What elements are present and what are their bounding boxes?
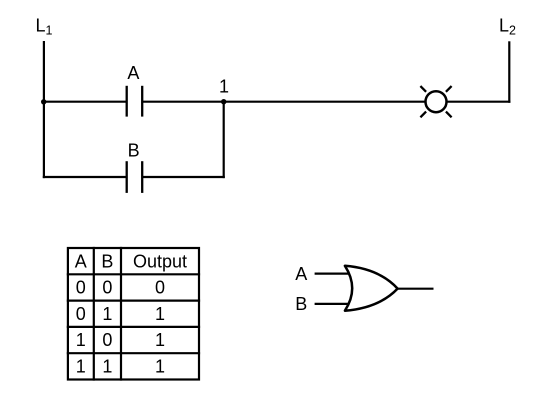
svg-text:A: A bbox=[127, 63, 139, 83]
svg-text:0: 0 bbox=[102, 278, 112, 298]
svg-text:0: 0 bbox=[76, 304, 86, 324]
label L1 bbox=[36, 16, 53, 38]
contact B bbox=[127, 161, 143, 193]
wire gate output bbox=[398, 288, 434, 290]
truth table row 0 0 0 bbox=[76, 278, 165, 298]
OR gate U1 bbox=[345, 266, 398, 311]
truth table row 1 1 1 bbox=[76, 357, 165, 377]
label A (gate input) bbox=[295, 264, 307, 284]
rail L1 bbox=[43, 41, 45, 178]
svg-text:A: A bbox=[295, 264, 307, 284]
truth table row 1 0 1 bbox=[76, 330, 165, 350]
wire lamp to rail L2 bbox=[446, 101, 510, 103]
svg-text:0: 0 bbox=[102, 330, 112, 350]
svg-text:B: B bbox=[295, 294, 307, 314]
svg-text:1: 1 bbox=[102, 357, 112, 377]
truth table header row bbox=[75, 252, 187, 272]
label L2 bbox=[499, 16, 516, 38]
label node 1 bbox=[219, 77, 229, 97]
wire node 1 down to branch B bbox=[223, 102, 225, 178]
label B (contact) bbox=[128, 141, 140, 161]
svg-text:A: A bbox=[75, 252, 87, 272]
junction dot left bbox=[41, 99, 46, 104]
svg-text:1: 1 bbox=[76, 357, 86, 377]
svg-text:1: 1 bbox=[155, 330, 165, 350]
svg-text:0: 0 bbox=[76, 278, 86, 298]
svg-text:1: 1 bbox=[155, 357, 165, 377]
node 1 junction dot bbox=[221, 99, 226, 104]
svg-text:B: B bbox=[128, 141, 140, 161]
label B (gate input) bbox=[295, 294, 307, 314]
lamp output coil bbox=[420, 86, 451, 117]
svg-text:1: 1 bbox=[102, 304, 112, 324]
rail L2 bbox=[508, 41, 510, 103]
svg-text:1: 1 bbox=[155, 304, 165, 324]
wire contact A to node 1 bbox=[142, 101, 224, 103]
contact A bbox=[127, 86, 143, 117]
wire gate input B bbox=[315, 303, 351, 305]
label A (contact) bbox=[127, 63, 139, 83]
wire rail L1 to contact B bbox=[43, 176, 127, 178]
wire gate input A bbox=[315, 273, 351, 275]
svg-text:1: 1 bbox=[76, 330, 86, 350]
wire contact B to node 1 branch bbox=[142, 176, 225, 178]
svg-text:Output: Output bbox=[133, 252, 187, 272]
svg-text:B: B bbox=[101, 252, 113, 272]
svg-text:1: 1 bbox=[219, 77, 229, 97]
wire L1 to contact A bbox=[44, 101, 127, 103]
svg-text:0: 0 bbox=[155, 278, 165, 298]
truth table grid bbox=[67, 247, 200, 381]
wire node 1 to lamp bbox=[224, 101, 426, 103]
truth table row 0 1 1 bbox=[76, 304, 165, 324]
